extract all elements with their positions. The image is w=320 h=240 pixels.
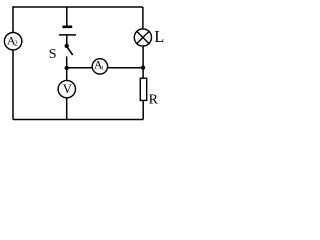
svg-text:S: S (49, 47, 57, 62)
svg-text:R: R (149, 93, 159, 108)
svg-text:V: V (63, 81, 73, 96)
svg-text:1: 1 (101, 64, 104, 71)
svg-text:2: 2 (14, 39, 18, 47)
svg-text:L: L (154, 27, 164, 46)
